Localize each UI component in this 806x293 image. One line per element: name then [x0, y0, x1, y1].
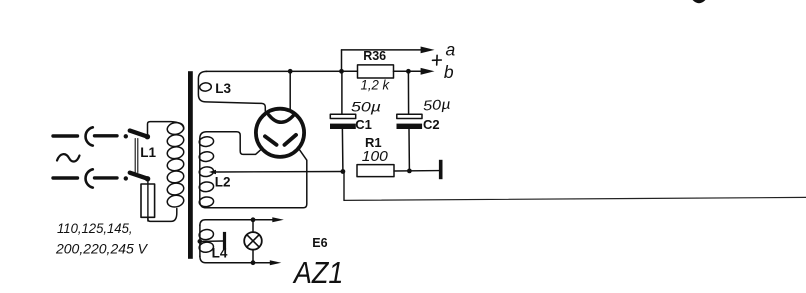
svg-text:R36: R36 — [363, 49, 386, 63]
svg-text:E6: E6 — [312, 236, 327, 250]
svg-text:b: b — [444, 62, 454, 82]
svg-text:110,125,145,: 110,125,145, — [57, 221, 133, 236]
svg-text:AZ1: AZ1 — [292, 256, 343, 290]
svg-text:a: a — [446, 39, 456, 59]
svg-text:L1: L1 — [140, 145, 156, 160]
svg-text:L3: L3 — [215, 81, 231, 96]
svg-text:C2: C2 — [423, 117, 440, 132]
svg-text:L4: L4 — [212, 246, 228, 261]
svg-text:L2: L2 — [215, 175, 231, 190]
svg-text:C1: C1 — [355, 117, 372, 132]
svg-text:200,220,245 V: 200,220,245 V — [55, 242, 149, 257]
svg-text:1,2 k: 1,2 k — [361, 77, 391, 93]
svg-text:50µ: 50µ — [351, 98, 381, 114]
svg-text:50µ: 50µ — [422, 96, 451, 114]
svg-text:100: 100 — [362, 148, 389, 165]
